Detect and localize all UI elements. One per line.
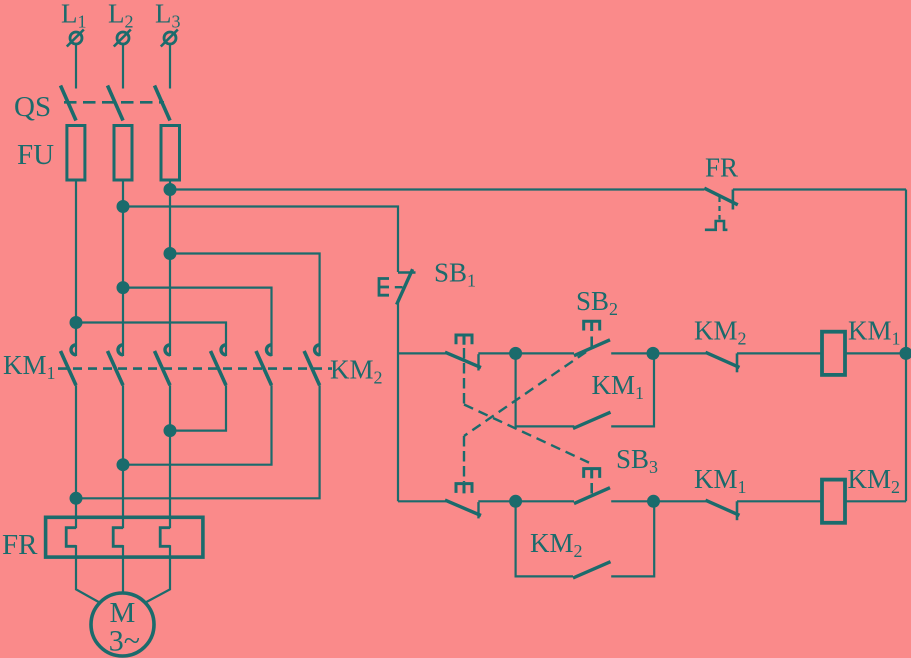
contactor KM2 main contact 5 [256,345,272,386]
node junction left feed [118,201,129,212]
wire control left feed [123,207,398,273]
wire L1 to QS [75,45,77,89]
wire FR to motor lead 2 [122,545,124,593]
wire rung1 seg5 [845,352,906,354]
node junction out 4 [165,425,176,436]
wire KM2 holding branch [516,501,573,576]
node L3 terminal [161,30,178,47]
wire feed to KM2 contact 6 [170,254,320,357]
pushbutton SB1 (NC stop) [379,269,416,304]
mechanical link diagonal from SB2 [464,352,586,436]
wire phase C contact to FR [169,385,171,528]
svg-text:FR: FR [2,529,38,561]
switch QS pole 3 [155,86,171,121]
pushbutton SB2 NC contact (rung2) [445,484,481,519]
contactor KM2 main contact 6 [304,345,320,386]
node junction out 5 [118,459,129,470]
node junction feed 6 [165,248,176,259]
wire L2 to QS [122,45,124,89]
wire L3 to QS [169,45,171,89]
node junction top feed [165,184,176,195]
KM main contacts linkage dashed [58,367,332,370]
contact KM1 NO (holding) [573,412,611,428]
switch QS pole 2 [108,86,124,121]
wire rung2 seg5 [845,500,906,502]
node junction rung2 left [510,496,521,507]
wire KM2 contact 5 output [123,385,272,464]
coil KM2 [822,480,845,523]
wire feed to KM2 contact 5 [123,288,272,356]
wire KM2 contact 6 output [76,385,320,498]
wire control top feed [170,188,704,190]
svg-text:FU: FU [17,139,54,171]
node junction feed 4 [71,317,82,328]
wire holding branch right [611,353,654,426]
wire right bus [905,190,907,502]
node junction feed 5 [118,282,129,293]
node L1 terminal [67,30,84,47]
wire rung1 seg2 [478,352,574,354]
wire KM1 holding branch [516,353,575,426]
mechanical link diagonal to SB3 [464,405,589,463]
node junction right bus [901,348,911,359]
contact KM1 NC (rung2 interlock) [706,500,740,520]
wire rung2 seg2 [478,500,574,502]
node junction rung1 left [510,348,521,359]
node junction rung2 right [648,496,659,507]
wire left bus lower [397,303,399,502]
wire rung2 seg4 [737,500,822,502]
wire rung1 seg3 [611,352,706,354]
pushbutton SB3 NO contact [574,469,610,504]
motor M circle [91,593,154,656]
wire phase C fuse to contact [169,180,171,356]
pushbutton SB2 NO contact [574,321,610,356]
wire top feed gap at FR [733,188,906,190]
contactor KM1 main contact 3 [155,345,171,386]
node junction out 6 [71,493,82,504]
mechanical link SB3 NC vertical dashed [463,348,465,404]
svg-text:3~: 3~ [109,625,140,658]
svg-text:FR: FR [705,153,738,183]
relay contact FR (NC) [704,188,738,230]
wire FR to motor lead 1 [76,545,100,602]
coil KM1 [822,332,845,375]
fuse FU1 [67,126,85,181]
contact KM2 NC (rung1 interlock) [706,352,740,372]
wire phase A contact to FR [75,385,77,528]
contactor KM2 main contact 4 [211,345,227,386]
FR heater element 1 [66,528,76,547]
contactor KM1 main contact 2 [108,345,124,386]
mechanical link SB2 NC vertical dashed [463,436,465,482]
pushbutton SB3 NC contact (rung1) [445,335,481,371]
fuse FU2 [114,126,132,181]
switch QS pole 1 [61,86,77,121]
QS linkage dashed [64,101,164,104]
wire phase B contact to FR [122,385,124,528]
contactor KM1 main contact 1 [61,345,77,386]
node L2 terminal [114,30,131,47]
wire phase A fuse to contact [75,180,77,356]
wire rung2 seg3 [611,500,706,502]
node junction rung1 right [648,348,659,359]
fuse FU3 [161,126,180,181]
wire holding branch 2 right [611,501,654,576]
wire rung1 seg4 [737,352,822,354]
svg-text:QS: QS [14,91,51,123]
wire rung2 start [398,500,446,502]
wire rung1 start [398,352,446,354]
wire FR to motor lead 3 [146,545,171,602]
FR heater element 3 [160,528,170,547]
contact KM2 NO (holding) [573,562,611,578]
FR heater element 2 [113,528,123,547]
wire KM2 contact 4 output [170,385,226,430]
thermal relay FR box [46,517,203,557]
wire phase B fuse to contact [122,180,124,356]
wire feed to KM2 contact 4 [76,323,226,357]
